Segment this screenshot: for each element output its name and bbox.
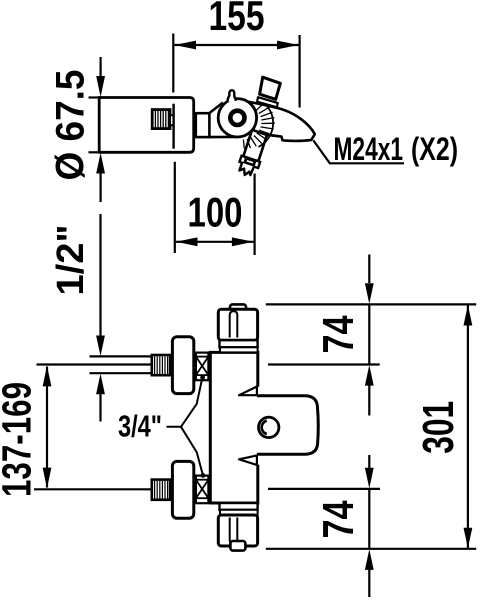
dimension 301 [464,305,473,548]
supply pipe top: upper line [90,355,153,357]
svg-text:M24x1: M24x1 [334,131,404,167]
handle housing slant [210,103,223,113]
svg-text:137-169: 137-169 [0,382,40,497]
bottom knob band1 [220,510,258,515]
svg-text:301: 301 [415,401,463,454]
svg-text:155: 155 [209,0,265,39]
wire: extension line left for dim 155 [172,34,174,93]
handle pointer tab [227,90,236,102]
bottom knob tab [230,541,245,551]
top knob tab [230,304,246,314]
knurled screw on cylinder [152,110,173,129]
shroud screw circle [259,417,279,437]
dimension arrows Ø67.5 [96,57,105,202]
knurled ring outer arc [259,103,274,147]
spout underside step line [266,135,280,137]
wire: extension line right for dim 100 [254,174,256,256]
wire: long shaft from top view to supply pipes [99,214,101,338]
top wedge [239,387,257,396]
dimension line 100 [176,237,254,246]
spout shroud [257,396,318,455]
leader M24x1 [313,140,404,163]
supply pipe bottom: center line [34,488,152,490]
wire: extension line 2 [268,363,380,365]
wire: division line between cylinder and cap [172,104,174,149]
threaded nipple bottom [152,480,173,500]
svg-text:(X2): (X2) [411,131,458,167]
leader dot lower [201,473,206,478]
dimension 74 bottom [365,455,374,597]
threaded nipple top [152,355,173,375]
arrow up below supply pipe [96,374,105,395]
svg-text:Ø 67.5: Ø 67.5 [49,70,93,181]
union X-box bottom [196,476,209,504]
wire: Ø67.5 top overhang stub [89,96,101,98]
shower outlet pipe (broken) [236,126,270,178]
wire: extension line 4 (bottom) [266,548,476,550]
bottom knob [218,515,257,546]
body cylinder with escutcheon cap (wall connector, top view) [99,98,194,153]
eccentric flange bottom [172,461,193,518]
top knob band2 [220,347,258,352]
svg-text:3/4": 3/4" [118,408,162,443]
wire: shaft below supply arrow [99,394,101,422]
dimension 74 top [365,255,374,416]
eccentric flange top [172,337,193,394]
supply pipe top: lower line [90,372,153,374]
top knob grip lines [230,311,238,337]
top knob [218,309,257,340]
svg-text:74: 74 [315,316,363,354]
svg-text:1/2": 1/2" [50,225,92,296]
main body [210,352,257,503]
adapter block [196,113,210,137]
wire: Ø67.5 bottom overhang stub [89,151,101,153]
wire: extension line left for dim 100 [174,162,176,253]
dimension 137-169 [43,366,52,488]
leader dot upper [200,375,205,380]
handle inner ring [230,111,244,125]
knurled ring fan [243,102,274,149]
bottom knob band2 [220,503,258,510]
dimension line 155 [174,41,298,50]
leader 3/4" [167,378,203,427]
svg-text:100: 100 [188,189,243,236]
top knob band1 [220,340,258,347]
bottom wedge [239,455,257,465]
shroud screw crescent [262,421,267,434]
handle circle [218,99,256,137]
spout (top view beak shape) [242,101,315,141]
arrow down at supply pipe top [96,336,105,357]
supply pipe top: center line [37,363,153,365]
handle housing bottom line [210,136,238,139]
bottom knob grip lines [230,518,238,544]
wire: extension line right for dim 155 [299,35,301,108]
wire: extension line 1 (top) [266,303,476,305]
svg-text:74: 74 [315,501,363,539]
wire: extension line 3 [268,488,380,490]
union X-box top [196,353,209,381]
diverter knob [257,97,278,107]
